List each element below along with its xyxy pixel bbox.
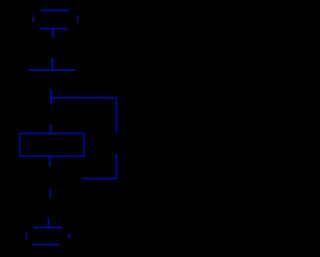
wire stem 6 [49, 156, 51, 166]
wire D [51, 97, 117, 99]
crystal Y2 body left edge [26, 232, 28, 239]
wire stem 1 [52, 29, 54, 38]
node wire C [29, 69, 75, 71]
crystal Y1 body left edge [32, 15, 34, 23]
wire stem 7 [49, 189, 51, 198]
wire stem 5 [50, 124, 52, 134]
wire stem 3 [50, 89, 52, 104]
crystal Y2 top plate [33, 227, 62, 229]
crystal Y2 body right edge [68, 233, 70, 239]
crystal Y1 top plate [41, 10, 69, 12]
crystal Y1 body right edge [76, 15, 78, 23]
wire E upper segment [115, 98, 117, 133]
wire stem 8 [47, 217, 49, 228]
wire stem 2 [52, 58, 54, 70]
wire E lower segment [115, 153, 117, 179]
box U1 [20, 133, 84, 156]
crystal Y2 bottom plate [32, 244, 59, 246]
crystal Y1 bottom plate [39, 28, 67, 30]
wire F [82, 178, 117, 180]
